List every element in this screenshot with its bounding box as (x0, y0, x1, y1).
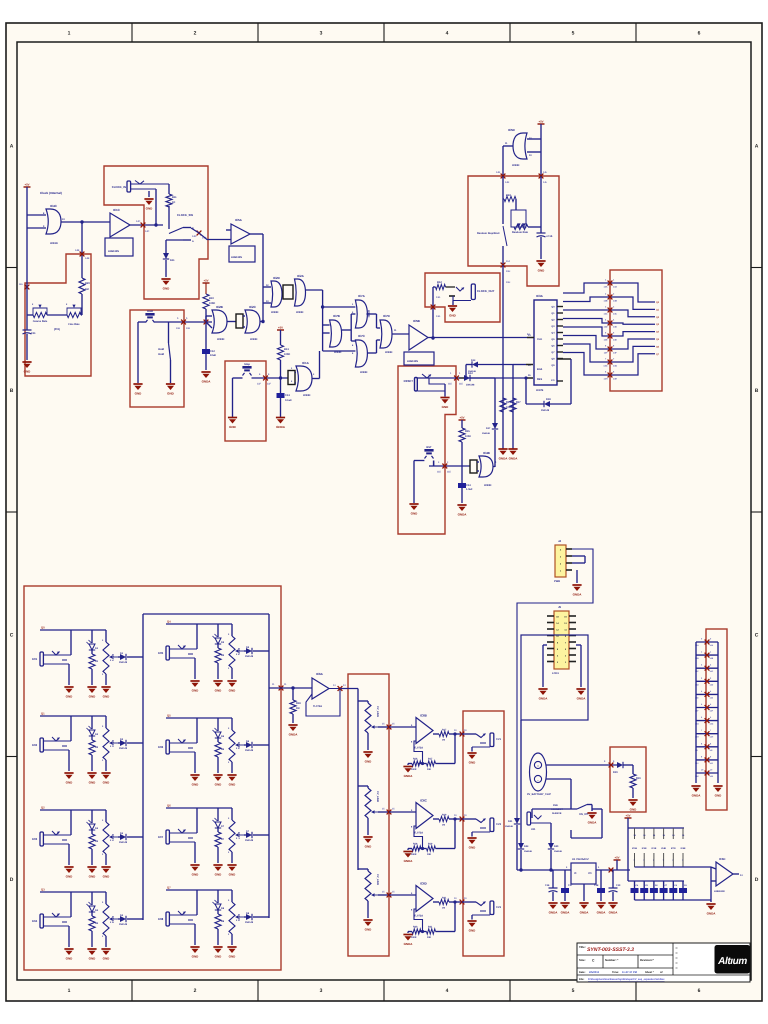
svg-text:C: C (10, 632, 14, 638)
svg-text:CLOCK_OUT: CLOCK_OUT (477, 289, 495, 293)
svg-text:IC5D: IC5D (719, 857, 725, 861)
svg-text:R20: R20 (413, 926, 418, 929)
svg-text:100K: 100K (209, 302, 215, 305)
svg-text:D21: D21 (508, 820, 513, 823)
svg-text:11E: 11E (437, 471, 441, 474)
svg-text:10K: 10K (427, 768, 432, 771)
svg-text:LM6132N: LM6132N (714, 890, 725, 893)
svg-text:R10: R10 (209, 297, 214, 300)
svg-text:+5V: +5V (459, 416, 464, 420)
svg-text:K04: K04 (32, 919, 38, 923)
svg-text:1M: 1M (442, 739, 445, 742)
svg-text:D19: D19 (613, 771, 618, 774)
svg-text:GNDA: GNDA (577, 697, 587, 701)
svg-text:C18: C18 (594, 884, 599, 887)
svg-text:GNDA: GNDA (580, 911, 590, 915)
svg-text:R12: R12 (437, 281, 442, 284)
svg-text:GND: GND (469, 761, 477, 765)
svg-text:C14: C14 (466, 484, 471, 487)
svg-text:B: B (10, 388, 14, 394)
svg-text:+5V: +5V (625, 814, 630, 818)
svg-text:10uF: 10uF (210, 354, 216, 357)
svg-text:10K: 10K (427, 853, 432, 856)
svg-text:I3A: I3A (19, 283, 23, 286)
svg-text:14B: 14B (603, 300, 607, 303)
svg-text:GNDA: GNDA (276, 425, 286, 429)
svg-text:GNDA: GNDA (458, 513, 468, 517)
svg-text:POT3: POT3 (111, 834, 114, 841)
svg-text:GNDA: GNDA (573, 593, 583, 597)
svg-text:GND: GND (411, 512, 419, 516)
svg-text:1N4148: 1N4148 (119, 841, 128, 844)
svg-text:GND: GND (135, 392, 143, 396)
svg-text:+5V: +5V (278, 326, 283, 330)
svg-text:11E: 11E (186, 327, 191, 330)
svg-text:C12: C12 (210, 350, 215, 353)
svg-text:Q7: Q7 (167, 886, 171, 890)
svg-text:R18: R18 (296, 702, 301, 705)
svg-text:D23: D23 (524, 845, 529, 848)
svg-text:1M: 1M (85, 288, 89, 291)
svg-text:D20: D20 (554, 845, 559, 848)
svg-text:GND: GND (449, 314, 457, 318)
svg-text:GND: GND (229, 873, 237, 877)
svg-text:IC1B: IC1B (632, 847, 637, 850)
svg-text:Q6: Q6 (167, 804, 171, 808)
svg-text:IC3E: IC3E (651, 847, 656, 850)
svg-text:Date:: Date: (579, 971, 586, 974)
svg-text:GNDA: GNDA (692, 794, 702, 798)
svg-text:GNDA: GNDA (597, 911, 607, 915)
svg-text:Random Step/Start: Random Step/Start (477, 232, 500, 235)
svg-text:GNDA: GNDA (561, 911, 571, 915)
svg-text:-: - (537, 779, 538, 783)
svg-text:IC6C: IC6C (420, 799, 428, 803)
svg-text:14C: 14C (136, 220, 141, 223)
svg-text:GND: GND (163, 287, 171, 291)
svg-text:100K: 100K (465, 435, 471, 438)
svg-text:IC4C: IC4C (50, 204, 58, 208)
svg-text:Revision:*: Revision:* (640, 958, 655, 962)
svg-text:2/5/2012: 2/5/2012 (589, 971, 600, 974)
svg-text:C19: C19 (616, 884, 621, 887)
svg-text:CO: CO (551, 379, 555, 382)
svg-text:A: A (192, 240, 194, 243)
svg-text:P6N: P6N (553, 804, 558, 807)
svg-text:IC7A: IC7A (358, 294, 366, 298)
svg-text:GND: GND (192, 955, 200, 959)
svg-text:C11: C11 (31, 332, 36, 335)
svg-text:11F: 11F (267, 383, 272, 386)
svg-text:VI: VI (574, 872, 577, 875)
svg-text:GND: GND (538, 269, 546, 273)
svg-text:Q4: Q4 (167, 620, 171, 624)
svg-text:R16: R16 (413, 758, 418, 761)
svg-text:D11: D11 (170, 259, 175, 262)
svg-text:Q0: Q0 (41, 626, 45, 630)
svg-text:14B: 14B (710, 657, 714, 660)
svg-text:CLOCK_IN: CLOCK_IN (112, 185, 126, 189)
svg-text:GND: GND (66, 957, 74, 961)
svg-text:SLEEVE: SLEEVE (552, 812, 562, 815)
svg-text:14E: 14E (613, 339, 617, 342)
svg-text:File:: File: (579, 978, 584, 981)
svg-text:D: D (755, 877, 759, 883)
svg-text:POT7: POT7 (237, 832, 240, 839)
svg-text:D:\Design\archive\KasserSynth\: D:\Design\archive\KasserSynth\steps\CV_s… (588, 978, 665, 981)
svg-text:1N4148: 1N4148 (245, 655, 254, 658)
svg-text:4: 4 (446, 31, 449, 37)
svg-text:ON_Off: ON_Off (579, 813, 588, 816)
svg-text:GNDA: GNDA (404, 942, 414, 946)
svg-text:PWR: PWR (554, 580, 560, 583)
svg-text:11J: 11J (506, 260, 511, 263)
svg-text:IC5D: IC5D (508, 128, 516, 132)
svg-text:2: 2 (194, 31, 197, 37)
svg-text:IC4E: IC4E (661, 847, 666, 850)
svg-text:1N4148: 1N4148 (541, 409, 550, 412)
svg-text:IC6D: IC6D (420, 882, 428, 886)
svg-text:14H: 14H (710, 736, 714, 739)
svg-text:R17: R17 (442, 729, 447, 732)
svg-text:GND: GND (469, 929, 477, 933)
svg-text:Q2: Q2 (41, 806, 45, 810)
svg-text:4093N: 4093N (512, 164, 520, 167)
svg-text:14E: 14E (604, 339, 608, 342)
svg-text:IC5B: IC5B (413, 319, 421, 323)
svg-text:GND: GND (630, 808, 638, 812)
svg-text:4093N: 4093N (484, 484, 492, 487)
svg-text:14F: 14F (613, 352, 617, 355)
svg-text:+: + (537, 764, 539, 768)
svg-text:1M: 1M (442, 907, 445, 910)
svg-text:11H: 11H (506, 270, 511, 273)
svg-text:VO: VO (588, 872, 592, 875)
svg-text:R13: R13 (284, 348, 289, 351)
svg-text:4093N: 4093N (217, 338, 225, 341)
svg-text:3: 3 (320, 31, 323, 37)
svg-text:CLK: CLK (537, 338, 542, 341)
svg-text:IC1A: IC1A (302, 361, 310, 365)
svg-text:GND: GND (229, 689, 237, 693)
svg-text:2: 2 (194, 988, 197, 994)
svg-text:GNDA: GNDA (549, 911, 559, 915)
svg-text:GND: GND (89, 875, 97, 879)
svg-text:Random Rate: Random Rate (512, 231, 529, 234)
svg-text:100K: 100K (411, 853, 417, 856)
svg-text:1M: 1M (296, 707, 299, 710)
svg-text:GND: GND (103, 781, 111, 785)
svg-text:14D: 14D (710, 683, 714, 686)
svg-text:B: B (755, 388, 759, 394)
svg-text:1M: 1M (442, 824, 445, 827)
svg-text:1N4148: 1N4148 (119, 747, 128, 750)
svg-text:GND: GND (442, 405, 450, 409)
svg-text:C: C (755, 632, 759, 638)
svg-text:GND: GND (89, 781, 97, 785)
svg-text:Coarse Rate: Coarse Rate (33, 320, 48, 323)
svg-text:GND: GND (715, 794, 723, 798)
svg-text:4093N: 4093N (296, 311, 304, 314)
svg-text:14B: 14B (75, 249, 80, 252)
svg-text:1N4148: 1N4148 (468, 370, 476, 373)
svg-text:K05: K05 (158, 651, 164, 655)
svg-text:11F: 11F (257, 383, 262, 386)
svg-text:11E: 11E (459, 383, 463, 386)
svg-text:14C: 14C (710, 670, 714, 673)
svg-text:CV3: CV3 (496, 906, 502, 909)
svg-text:RESET: RESET (404, 379, 414, 383)
svg-text:POT2: POT2 (111, 740, 114, 747)
svg-text:5: 5 (572, 31, 575, 37)
svg-text:14A: 14A (710, 644, 714, 647)
svg-text:14G: 14G (710, 723, 714, 726)
svg-text:14K: 14K (496, 171, 501, 174)
svg-text:GND: GND (215, 689, 223, 693)
svg-text:Time:: Time: (612, 971, 619, 974)
svg-text:R21: R21 (428, 926, 433, 929)
svg-text:Stop: Stop (244, 363, 250, 366)
svg-text:Fine Rate: Fine Rate (68, 323, 80, 326)
svg-text:14F: 14F (604, 352, 608, 355)
svg-text:+C15: +C15 (546, 235, 553, 238)
svg-text:IC2C: IC2C (249, 305, 257, 309)
svg-text:J5: J5 (558, 605, 562, 609)
svg-text:D: D (10, 877, 14, 883)
svg-text:R18: R18 (413, 843, 418, 846)
svg-text:IC2B: IC2B (216, 305, 224, 309)
svg-text:TL072A: TL072A (414, 747, 423, 750)
svg-text:14K: 14K (710, 775, 714, 778)
svg-text:K07: K07 (158, 835, 164, 839)
svg-text:14D: 14D (603, 326, 607, 329)
svg-text:SYNT-003-SSST-3.3: SYNT-003-SSST-3.3 (587, 947, 634, 953)
svg-text:GND: GND (229, 783, 237, 787)
svg-text:GNDA: GNDA (539, 697, 549, 701)
svg-text:11H: 11H (506, 281, 511, 284)
svg-text:GND: GND (192, 783, 200, 787)
svg-text:Clock (Internal): Clock (Internal) (40, 191, 62, 195)
svg-text:IC3A: IC3A (536, 294, 544, 298)
svg-text:POT1: POT1 (111, 654, 114, 661)
svg-text:4093N: 4093N (385, 351, 393, 354)
svg-text:U11: U11 (531, 828, 536, 831)
svg-text:GND: GND (229, 955, 237, 959)
svg-text:1N4148: 1N4148 (482, 432, 490, 435)
svg-text:K08: K08 (158, 917, 164, 921)
svg-text:IC7C: IC7C (358, 334, 366, 338)
svg-text:4093N: 4093N (50, 242, 58, 245)
svg-text:Altıum: Altıum (717, 956, 747, 967)
svg-text:R20: R20 (85, 282, 90, 285)
svg-text:GNDA: GNDA (707, 912, 717, 916)
svg-text:CLOCK_SW: CLOCK_SW (177, 213, 193, 217)
svg-text:IC7E: IC7E (671, 847, 676, 850)
svg-text:Q3: Q3 (41, 888, 45, 892)
svg-text:IC2D: IC2D (273, 276, 281, 280)
svg-text:of: of (660, 971, 663, 974)
svg-text:14G: 14G (603, 365, 607, 368)
svg-text:Size:: Size: (579, 958, 586, 962)
svg-text:GND: GND (365, 760, 373, 764)
svg-text:RES: RES (537, 378, 542, 381)
svg-text:R11: R11 (172, 196, 177, 199)
svg-text:K01: K01 (32, 657, 38, 661)
svg-text:1K: 1K (172, 201, 175, 204)
svg-text:1: 1 (68, 988, 71, 994)
svg-text:Q5: Q5 (167, 714, 171, 718)
svg-text:3: 3 (320, 988, 323, 994)
svg-text:1N4148: 1N4148 (554, 850, 562, 853)
svg-text:+5V: +5V (538, 120, 543, 124)
svg-text:GND: GND (167, 392, 175, 396)
svg-text:POT6: POT6 (237, 742, 240, 749)
svg-text:TL072A: TL072A (414, 832, 423, 835)
svg-text:Hold: Hold (147, 310, 153, 313)
svg-text:GND: GND (103, 695, 111, 699)
svg-text:5: 5 (572, 988, 575, 994)
svg-text:TL072A: TL072A (313, 705, 322, 708)
svg-text:POT8: POT8 (237, 914, 240, 921)
svg-text:R21: R21 (442, 897, 447, 900)
svg-text:6: 6 (698, 31, 701, 37)
svg-text:1N4148: 1N4148 (245, 749, 254, 752)
svg-text:R17: R17 (516, 401, 521, 404)
svg-text:A: A (755, 143, 759, 149)
svg-text:14L: 14L (543, 171, 548, 174)
svg-text:GNDA: GNDA (588, 821, 598, 825)
svg-text:14J: 14J (710, 762, 713, 765)
svg-text:IC2E: IC2E (642, 847, 647, 850)
svg-text:1N4148: 1N4148 (245, 839, 254, 842)
svg-text:C13: C13 (285, 394, 290, 397)
svg-text:IC6B: IC6B (420, 714, 428, 718)
svg-text:Number: *: Number: * (605, 958, 619, 962)
svg-text:14H: 14H (613, 378, 617, 381)
svg-text:GNDA: GNDA (202, 380, 212, 384)
svg-text:POT5: POT5 (237, 648, 240, 655)
svg-text:LCD1: LCD1 (552, 672, 559, 675)
svg-text:10K: 10K (427, 936, 432, 939)
svg-text:IC1C: IC1C (113, 208, 121, 212)
svg-text:IC4B: IC4B (483, 451, 491, 455)
svg-text:IC6E: IC6E (681, 847, 686, 850)
svg-text:14G: 14G (436, 296, 441, 299)
svg-text:14B: 14B (85, 257, 90, 260)
svg-text:C16: C16 (545, 884, 550, 887)
svg-text:11:47:37 PM: 11:47:37 PM (622, 971, 637, 974)
svg-text:K06: K06 (158, 745, 164, 749)
svg-text:1N4148: 1N4148 (505, 825, 513, 828)
svg-text:R22: R22 (506, 194, 511, 197)
svg-text:CV_LIM3: CV_LIM3 (376, 874, 379, 886)
svg-text:4093N: 4093N (271, 311, 279, 314)
svg-text:4093N: 4093N (303, 394, 311, 397)
svg-text:[P01]: [P01] (54, 328, 60, 331)
svg-text:1.0uF: 1.0uF (466, 488, 473, 491)
svg-text:GND: GND (66, 875, 74, 879)
svg-text:R17: R17 (428, 758, 433, 761)
svg-text:IC2A: IC2A (297, 274, 305, 278)
svg-text:14C: 14C (145, 230, 150, 233)
svg-text:R19: R19 (428, 843, 433, 846)
svg-text:IC5A: IC5A (235, 218, 243, 222)
svg-text:K02: K02 (32, 743, 38, 747)
svg-text:GNDA: GNDA (404, 774, 414, 778)
svg-text:GND: GND (89, 957, 97, 961)
svg-text:IC7B: IC7B (333, 314, 341, 318)
svg-text:1N4148: 1N4148 (119, 661, 128, 664)
svg-text:C17: C17 (568, 884, 573, 887)
svg-text:J4: J4 (558, 539, 562, 543)
svg-text:14L: 14L (543, 181, 548, 184)
svg-text:GND: GND (215, 783, 223, 787)
svg-text:14A: 14A (603, 286, 607, 289)
svg-text:GND: GND (229, 425, 237, 429)
svg-text:100K: 100K (284, 353, 290, 356)
svg-text:14I: 14I (710, 749, 713, 752)
svg-text:GNDA: GNDA (289, 733, 299, 737)
svg-text:11E: 11E (176, 327, 181, 330)
svg-text:6: 6 (698, 988, 701, 994)
svg-text:100K: 100K (411, 768, 417, 771)
svg-text:IC6A: IC6A (316, 672, 324, 676)
svg-text:11E: 11E (448, 383, 452, 386)
svg-text:R19: R19 (442, 814, 447, 817)
svg-text:K03: K03 (32, 837, 38, 841)
svg-text:14G: 14G (436, 315, 441, 318)
svg-text:4017B: 4017B (536, 389, 544, 392)
svg-text:GND: GND (365, 845, 373, 849)
svg-text:0.1uF: 0.1uF (285, 399, 292, 402)
svg-text:LM6132N: LM6132N (231, 256, 242, 259)
svg-text:GND: GND (103, 957, 111, 961)
svg-text:100K: 100K (411, 936, 417, 939)
svg-text:GND: GND (192, 689, 200, 693)
svg-text:D17: D17 (486, 427, 491, 430)
svg-text:Hold: Hold (158, 348, 164, 351)
svg-text:GND: GND (89, 695, 97, 699)
svg-text:4093N: 4093N (360, 371, 368, 374)
svg-text:14C: 14C (603, 313, 607, 316)
svg-text:GND: GND (103, 875, 111, 879)
svg-text:14D: 14D (613, 326, 617, 329)
svg-text:CV_LIM1: CV_LIM1 (376, 706, 379, 718)
svg-text:LM6132N: LM6132N (108, 250, 119, 253)
svg-text:1N4148: 1N4148 (524, 850, 532, 853)
svg-text:CV_LIM2: CV_LIM2 (376, 791, 379, 803)
svg-text:CV1: CV1 (496, 738, 502, 741)
svg-text:GNDA: GNDA (499, 457, 509, 461)
svg-text:1N4148: 1N4148 (245, 921, 254, 924)
svg-text:GND: GND (215, 955, 223, 959)
svg-text:GND: GND (365, 928, 373, 932)
svg-text:Sheet *: Sheet * (645, 971, 654, 974)
svg-text:4: 4 (446, 988, 449, 994)
svg-text:GNDA: GNDA (509, 457, 519, 461)
svg-text:U1 78L05ACZ: U1 78L05ACZ (572, 858, 589, 861)
svg-text:Q1: Q1 (41, 712, 45, 716)
svg-text:GNDA: GNDA (404, 859, 414, 863)
svg-text:GND: GND (192, 873, 200, 877)
svg-text:11E: 11E (447, 471, 451, 474)
svg-text:POT4: POT4 (111, 916, 114, 923)
svg-text:1: 1 (68, 31, 71, 37)
svg-text:GND: GND (24, 370, 32, 374)
svg-text:A: A (10, 143, 14, 149)
svg-text:Title:: Title: (579, 945, 586, 949)
svg-text:GND: GND (146, 207, 154, 211)
